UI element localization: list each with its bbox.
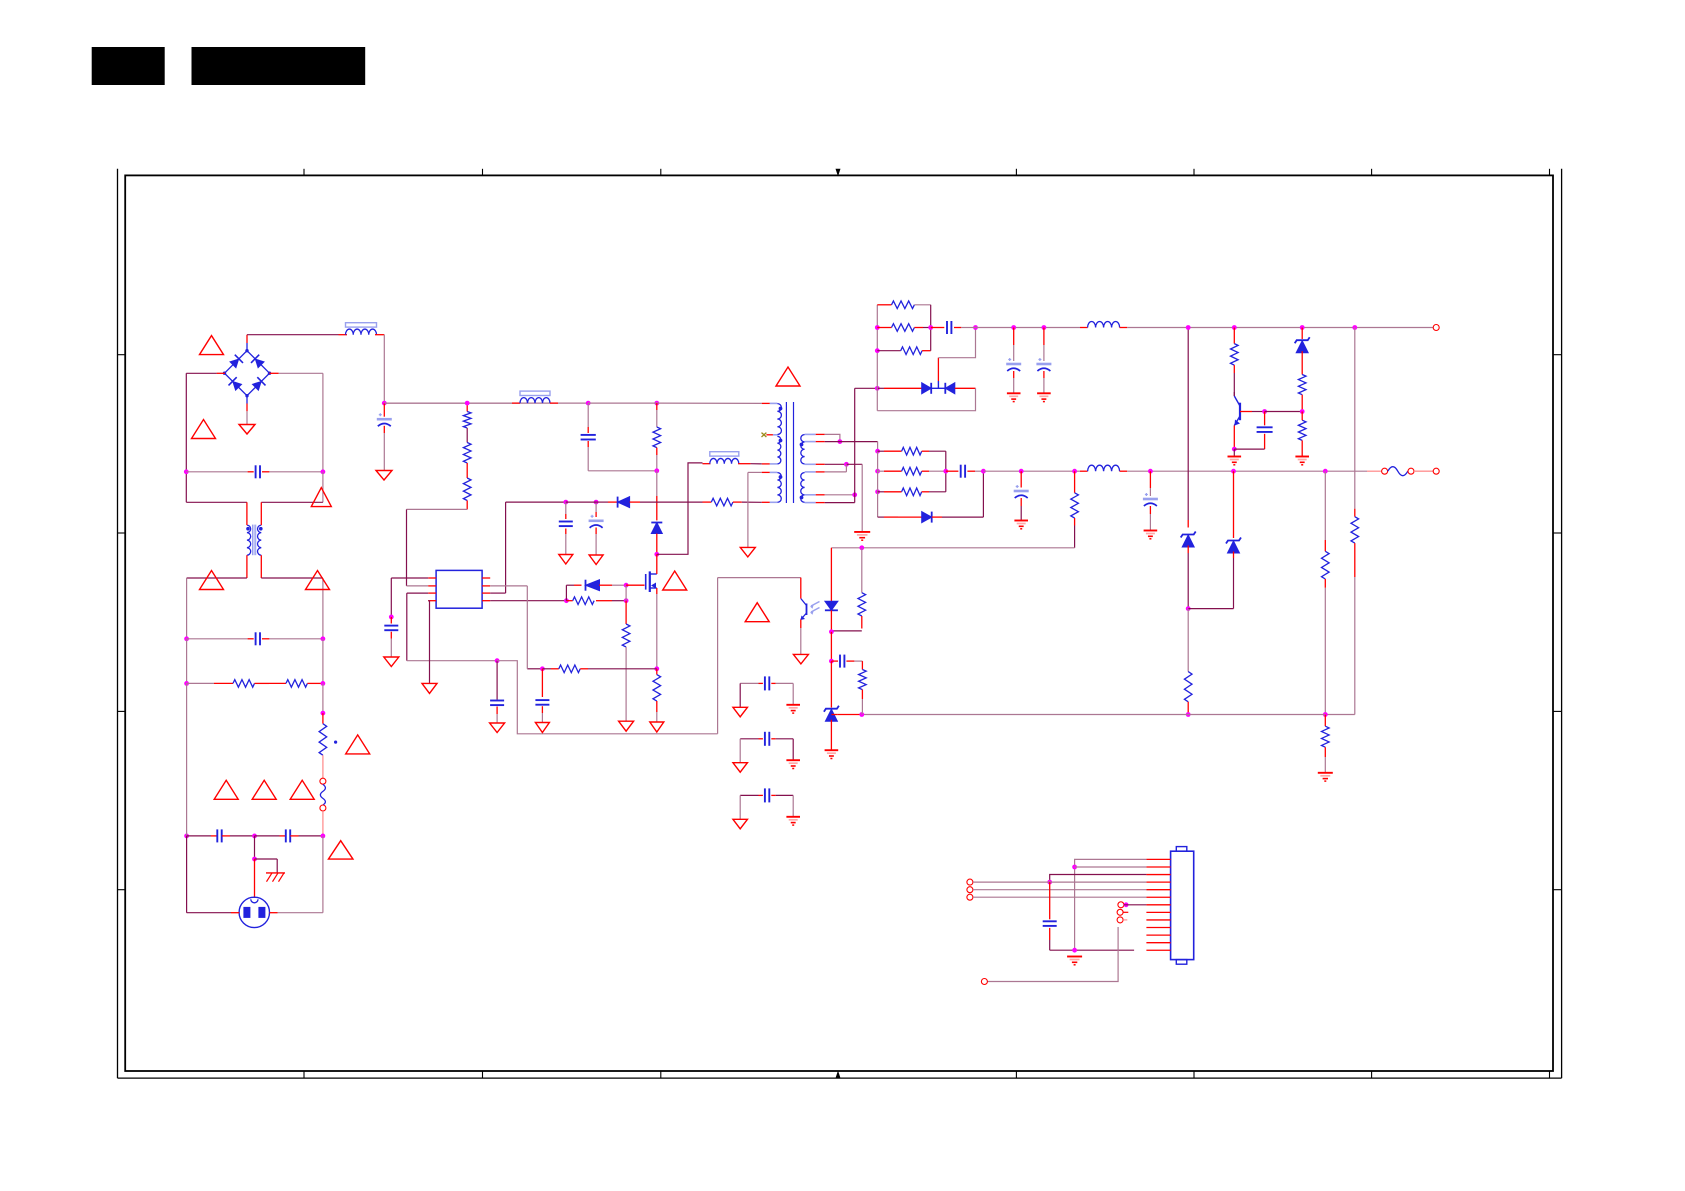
node pin1 cap bbox=[389, 615, 394, 620]
wire 12V cathode up bbox=[938, 328, 975, 389]
resistor R122 bbox=[1184, 609, 1192, 715]
wire CN pin1 bbox=[1075, 859, 1147, 950]
wire IC pin8R to gate net bbox=[490, 600, 566, 602]
pin T102 sec tap2 bbox=[805, 494, 855, 496]
frame zone ticks right bbox=[1553, 355, 1562, 890]
bridge rectifier BD101 bbox=[223, 349, 271, 397]
wire rail 403 left bbox=[384, 402, 588, 404]
node sec centertap bbox=[844, 462, 849, 467]
ground C120 right bbox=[786, 705, 800, 713]
wire Q101 drain bbox=[656, 554, 658, 574]
wire opto rail bbox=[837, 714, 1325, 716]
ground C107 bbox=[384, 657, 399, 667]
MOSFET Q101 bbox=[646, 571, 657, 592]
wire CN pin5 bbox=[973, 889, 1146, 891]
capacitor C112 snubber bbox=[931, 321, 976, 334]
resistor R114 bbox=[1231, 328, 1239, 397]
node divider top bbox=[1072, 469, 1077, 474]
node clamp res top bbox=[654, 401, 659, 406]
common-mode choke T101 bbox=[246, 525, 262, 556]
capacitor C122 stitch bbox=[740, 788, 793, 819]
pin T102 sec4 bbox=[805, 464, 847, 472]
wire left rail mid bbox=[186, 639, 188, 684]
capacitor C121 stitch bbox=[740, 732, 793, 763]
wire Q102 collector bbox=[1233, 392, 1235, 396]
wire bridge bottom pin bbox=[246, 396, 248, 425]
wire zener join bbox=[1188, 558, 1233, 609]
node zener join bbox=[1186, 606, 1191, 611]
wire emitter bbox=[1233, 426, 1235, 450]
node rail403 at C101 bbox=[382, 401, 387, 406]
inductor L105 bbox=[1088, 322, 1120, 328]
wire drain node to bead L104 bbox=[657, 463, 703, 554]
capacitor C101 bulk bbox=[377, 403, 392, 470]
capacitor C103 X-cap bbox=[187, 632, 323, 645]
resistor R123 bbox=[1322, 715, 1330, 773]
resistor R107 gate bbox=[566, 597, 626, 605]
resistor R106 aux bbox=[711, 498, 733, 506]
warning triangle 6 bbox=[346, 735, 370, 754]
ground aux winding bbox=[740, 547, 755, 557]
wire left rail to choke bbox=[186, 501, 247, 503]
pin T102 aux bottom bbox=[762, 501, 778, 503]
pin T102 primary top bbox=[762, 402, 778, 404]
sheet outer border left bbox=[117, 169, 119, 1078]
ground bridge bbox=[239, 425, 255, 435]
node LED bottom bbox=[829, 629, 834, 634]
wire sec tap to snubber2 bbox=[877, 442, 879, 452]
capacitor C119 fb bbox=[831, 655, 862, 670]
node X-cap C102 left bbox=[184, 469, 189, 474]
node railB zener bbox=[1231, 469, 1236, 474]
diode D105 bbox=[931, 383, 975, 394]
resistor R112 bbox=[877, 324, 930, 332]
transistor Q102 bbox=[1234, 396, 1240, 426]
ground C101 bbox=[376, 471, 392, 481]
wire remote line bbox=[988, 927, 1119, 982]
IC U101 PWM controller bbox=[436, 570, 482, 608]
node gate net right bbox=[624, 598, 629, 603]
wire R105 to IC pin2 bbox=[407, 509, 468, 586]
sheet outer border bottom bbox=[118, 1077, 1562, 1079]
capacitor C116 snubber bbox=[946, 465, 984, 478]
redacted title block 2 bbox=[192, 47, 366, 85]
node snubber1 m1 bbox=[875, 325, 880, 330]
wire source row bbox=[527, 668, 542, 670]
node C103 right bbox=[321, 636, 326, 641]
wire rail B right bbox=[1120, 470, 1381, 472]
node sec tap bbox=[838, 439, 843, 444]
IC U101 pins bbox=[428, 578, 490, 601]
diode D107 bbox=[878, 512, 984, 523]
warning triangle 5 bbox=[306, 571, 330, 590]
node C103 left bbox=[184, 636, 189, 641]
wire centertap to gnd stem bbox=[846, 464, 862, 532]
node gate net left bbox=[564, 598, 569, 603]
pin choke top-right bbox=[260, 502, 262, 525]
node on/off bbox=[1124, 902, 1129, 907]
warning triangle 7 bbox=[214, 780, 238, 799]
capacitor C120 stitch bbox=[740, 676, 793, 707]
node railA fb bbox=[1352, 325, 1357, 330]
ground C110 bbox=[589, 555, 603, 565]
capacitor C115 bbox=[1257, 412, 1273, 450]
ground opto emitter bbox=[793, 654, 808, 664]
wire Q101 source bbox=[656, 588, 658, 669]
ground secondary bbox=[854, 532, 870, 540]
connector CN101 body bbox=[1171, 847, 1194, 965]
capacitor C106 snubber bbox=[581, 403, 657, 471]
wire bridge right bbox=[269, 373, 323, 472]
wire clamp to zener bbox=[656, 471, 658, 521]
wire node link bbox=[625, 585, 627, 601]
resistor R111 bbox=[877, 301, 930, 309]
pin T102 sec top bbox=[805, 434, 840, 441]
node Y-row mid bbox=[252, 834, 257, 839]
wire snubber2 left vert bbox=[877, 451, 879, 517]
wire plug right bbox=[270, 836, 323, 913]
thermistor RT101 bbox=[319, 713, 337, 755]
wire choke bl to left rail bbox=[187, 578, 247, 639]
ground connector bbox=[1067, 957, 1082, 965]
node Y-row left bbox=[184, 834, 189, 839]
pin choke top-left bbox=[246, 502, 248, 525]
wire left rail low bbox=[186, 683, 188, 836]
capacitor C111 sense bbox=[535, 669, 549, 723]
wire CN pin3 bbox=[1050, 875, 1147, 883]
ground C117 bbox=[1014, 521, 1028, 529]
ground R123 bbox=[1318, 773, 1333, 781]
ground C122 left bbox=[733, 819, 748, 829]
node C118 top bbox=[1148, 469, 1153, 474]
wire bead L103 span bbox=[384, 402, 512, 404]
warning triangle 1 bbox=[200, 336, 224, 355]
node drain bbox=[654, 552, 659, 557]
pin T102 sec tap bbox=[805, 441, 878, 443]
wire CN pin4 bbox=[973, 881, 1146, 883]
frame center arrow bottom bbox=[836, 1071, 841, 1079]
wire fb vert bbox=[1354, 328, 1356, 517]
wire right rail to choke bbox=[261, 472, 323, 503]
node C114 top bbox=[1042, 325, 1047, 330]
wire sec to 12V rectifier bbox=[854, 388, 856, 495]
sheet inner border bbox=[125, 175, 1553, 1071]
node Y-row right bbox=[321, 834, 326, 839]
capacitor C118 bbox=[1143, 471, 1158, 530]
wire gate to mosfet bbox=[626, 584, 644, 586]
ground C111 bbox=[535, 723, 549, 733]
ground C122 right bbox=[786, 817, 800, 825]
ferrite bead L103 bbox=[512, 391, 558, 403]
wire IC pin7R to VCC rail bbox=[490, 502, 566, 593]
wire rail B bbox=[983, 470, 1087, 472]
wire 12V diode row bbox=[855, 387, 878, 389]
node conn gnd bbox=[1072, 948, 1077, 953]
ferrite bead L104 bbox=[703, 452, 762, 464]
wire D102 to R106 bbox=[630, 501, 712, 503]
wire right rail to thermistor bbox=[322, 683, 324, 713]
terminal in3 bbox=[967, 894, 973, 900]
node divider mid bbox=[859, 545, 864, 550]
zener D108 bbox=[1181, 520, 1196, 609]
wire opto emitter bbox=[800, 620, 802, 655]
ground C108 bbox=[490, 723, 505, 733]
resistor R121 divider bbox=[1071, 471, 1079, 548]
ground C113 bbox=[1007, 393, 1021, 401]
wire R106 to xfmr bbox=[733, 501, 762, 503]
ground C114 bbox=[1037, 393, 1051, 401]
frame zone ticks bottom bbox=[304, 1071, 1550, 1078]
wire fb corner bbox=[1325, 714, 1355, 716]
diode D104 bbox=[877, 383, 931, 394]
node snubber1 left bbox=[875, 386, 880, 391]
wire emitter gnd bbox=[1233, 449, 1235, 456]
resistor R124 opto parallel bbox=[831, 548, 865, 631]
terminal remote bbox=[981, 979, 987, 985]
zener D109 bbox=[1226, 471, 1241, 558]
wire IC pin4 to gnd bbox=[428, 601, 429, 684]
node zener divider bbox=[1300, 409, 1305, 414]
wire gate parallel link bbox=[566, 585, 581, 601]
wire bridge top to bead bbox=[247, 334, 339, 336]
wire choke br to right rail bbox=[261, 578, 323, 639]
AC inlet plug J101 bbox=[239, 897, 269, 927]
frame zone ticks top bbox=[304, 169, 1550, 176]
sheet outer border right bbox=[1561, 169, 1563, 1078]
resistor R115 bbox=[1298, 375, 1306, 412]
pin T102 sec mid bbox=[805, 463, 847, 465]
node opto rail left bbox=[859, 712, 864, 717]
resistor R119 bbox=[878, 467, 946, 475]
ground C121 left bbox=[733, 763, 748, 773]
pin T102 primary mid bbox=[762, 463, 778, 465]
ground C120 left bbox=[733, 707, 748, 717]
wire diode return bbox=[877, 388, 975, 410]
node clamp bottom bbox=[654, 468, 659, 473]
wire base to zener node bbox=[1265, 411, 1303, 413]
wire fuse out bbox=[1414, 470, 1433, 472]
capacitor C123 conn bbox=[1043, 882, 1057, 950]
wire CN pin2 bbox=[1075, 866, 1147, 868]
ground C118 bbox=[1144, 531, 1158, 539]
diode D103 gate bbox=[586, 580, 600, 591]
warning triangle 4 bbox=[200, 571, 224, 590]
wire Q102 base bbox=[1240, 411, 1265, 413]
capacitor C109 bbox=[559, 502, 573, 554]
node C113 top bbox=[1011, 325, 1016, 330]
node clamp cap top bbox=[586, 401, 591, 406]
node snubber2 r1 bbox=[875, 449, 880, 454]
capacitor C117 bbox=[1014, 471, 1029, 520]
spark gap terminals bbox=[320, 755, 326, 836]
optocoupler U102 LED bbox=[825, 560, 838, 632]
resistor R120 bbox=[878, 488, 946, 496]
resistor R116 bbox=[1298, 412, 1306, 457]
ground R116 bbox=[1295, 457, 1309, 465]
node railB tap bbox=[1323, 469, 1328, 474]
warning triangle 13 bbox=[745, 603, 769, 622]
transformer T102 core bbox=[786, 402, 793, 503]
wire railB tap down bbox=[1324, 471, 1326, 551]
frame zone ticks left bbox=[118, 355, 126, 890]
pin T102 sec bottom bbox=[805, 495, 855, 503]
wire pin6R to sense bbox=[490, 586, 527, 669]
wire rail A bbox=[976, 327, 1088, 329]
node C117 top bbox=[1019, 469, 1024, 474]
ground Q102 bbox=[1228, 457, 1242, 465]
node gate bbox=[624, 583, 629, 588]
wire snubber1 left vert bbox=[876, 305, 878, 389]
warning triangle 12 bbox=[776, 367, 800, 386]
node opto rail z bbox=[1186, 712, 1191, 717]
transformer T102 primary winding bbox=[777, 404, 782, 503]
node railA R114 bbox=[1232, 325, 1237, 330]
node C110 top bbox=[594, 500, 599, 505]
terminal on/off bbox=[1118, 902, 1124, 908]
wire emitter-cap link bbox=[1234, 448, 1264, 450]
wire bridge left bbox=[186, 373, 225, 502]
wire conn gnd row bbox=[1050, 949, 1134, 951]
capacitor C108 bbox=[490, 661, 504, 723]
resistor R110 source-gnd bbox=[653, 669, 661, 722]
shunt regulator D110 TL431 bbox=[824, 661, 839, 750]
wire railA long drop bbox=[1187, 328, 1189, 521]
wire bead to bulk cap bbox=[383, 335, 385, 403]
resistor R125 fb bbox=[859, 670, 867, 715]
diode D102 vcc bbox=[618, 497, 630, 508]
node emitter bbox=[1232, 447, 1237, 452]
wire IC pin1 branch bbox=[391, 578, 428, 617]
wire opto collector bbox=[718, 578, 801, 599]
fuse F101 bbox=[1382, 467, 1414, 476]
node railB start bbox=[981, 469, 986, 474]
wire earth pin to plug bbox=[254, 859, 256, 898]
node cap C108 top bbox=[495, 658, 500, 663]
resistor R104/R105 startup bbox=[463, 403, 471, 509]
node sec tap2 bbox=[852, 492, 857, 497]
node R101 left bbox=[184, 681, 189, 686]
wire opto loop bbox=[717, 578, 719, 734]
terminal in2 bbox=[967, 887, 973, 893]
resistor R118 bbox=[878, 447, 946, 455]
node zener top bbox=[829, 659, 834, 664]
capacitor C104 Y-cap bbox=[187, 829, 255, 842]
pin choke bottom-left bbox=[246, 555, 248, 578]
inductor L106 bbox=[1088, 465, 1120, 471]
ground D110 bbox=[825, 750, 839, 758]
wire rail A right bbox=[1120, 327, 1434, 329]
transformer T102 secondary winding bbox=[800, 435, 805, 503]
node C109 top bbox=[563, 500, 568, 505]
wire D101 to drain node bbox=[656, 534, 658, 555]
warning triangle 9 bbox=[290, 780, 314, 799]
resistor R126 bbox=[1322, 551, 1330, 714]
node sense left bbox=[540, 666, 545, 671]
chassis ground bbox=[266, 873, 285, 882]
node CN pin2 bbox=[1072, 865, 1077, 870]
capacitor C113 bbox=[1006, 328, 1021, 394]
ground C121 right bbox=[786, 760, 800, 768]
ground R108 bbox=[619, 721, 634, 731]
node snubber2 r3 bbox=[875, 489, 880, 494]
node snubber2 r2 bbox=[875, 469, 880, 474]
capacitor C107 bbox=[384, 617, 398, 657]
terminal 12V output bbox=[1433, 325, 1439, 331]
resistor R103 snubber bbox=[653, 403, 661, 471]
terminal in1 bbox=[967, 879, 973, 885]
capacitor C102 X-cap bbox=[186, 465, 323, 478]
capacitor C105 Y-cap bbox=[255, 829, 323, 842]
resistor R113 bbox=[877, 347, 930, 355]
warning triangle 11 bbox=[663, 571, 687, 590]
connector CN101 pins bbox=[1146, 859, 1170, 950]
node railA zener bbox=[1300, 325, 1305, 330]
terminal aux1 bbox=[1117, 909, 1128, 915]
pin T102 aux top bbox=[762, 471, 778, 473]
capacitor C114 bbox=[1036, 328, 1051, 394]
wire rail661 corner bbox=[497, 661, 717, 734]
node railA drop bbox=[1186, 325, 1191, 330]
redacted title block 1 bbox=[92, 47, 165, 85]
wire CN pin6 bbox=[973, 896, 1146, 898]
wire snubber1 right vert bbox=[930, 305, 932, 351]
wire bridge top pin bbox=[246, 335, 248, 351]
node snubber1 m2 bbox=[875, 348, 880, 353]
capacitor C110 bbox=[589, 502, 604, 555]
wire CN pin7 bbox=[1124, 904, 1146, 906]
warning triangle 8 bbox=[252, 780, 276, 799]
wire VCC rail bbox=[566, 501, 617, 503]
resistor R117 feedback bbox=[1351, 517, 1359, 715]
warning triangle 2 bbox=[192, 420, 216, 439]
node source bbox=[654, 666, 659, 671]
node base cap bbox=[1262, 409, 1267, 414]
ground IC pin4 bbox=[422, 683, 437, 693]
wire rail403 right bbox=[588, 402, 762, 404]
optocoupler U102 transistor bbox=[801, 599, 820, 621]
resistor R108 gate-gnd bbox=[622, 601, 630, 722]
warning triangle 10 bbox=[328, 841, 353, 859]
node rail403 at R104 bbox=[465, 401, 470, 406]
warning triangle 3 bbox=[311, 488, 331, 507]
wire right rail mid bbox=[322, 639, 324, 684]
node opto rail tap bbox=[1323, 712, 1328, 717]
wire TL431 ref link bbox=[831, 714, 837, 716]
node snubber1 cap bbox=[928, 325, 933, 330]
node CN pin4 junction bbox=[1047, 880, 1052, 885]
wire aux top to ground bbox=[748, 472, 762, 547]
terminal 5V output bbox=[1433, 468, 1439, 474]
resistor R101 bbox=[187, 680, 269, 688]
pin T102 primary NC tap bbox=[762, 433, 778, 437]
wire IC pin3 to rail661 bbox=[407, 593, 497, 661]
node X-cap C102 right bbox=[321, 469, 326, 474]
wire D103 to node bbox=[599, 584, 626, 586]
ground C109 bbox=[559, 555, 573, 565]
resistor R102 bbox=[269, 680, 323, 688]
wire LED to zener node bbox=[830, 632, 832, 661]
wire D107 up bbox=[982, 471, 984, 517]
resistor R109 sense bbox=[542, 665, 656, 673]
ground R110 bbox=[650, 722, 664, 732]
pin choke bottom-right bbox=[260, 555, 262, 578]
wire rail547 bbox=[831, 548, 1074, 560]
wire plug left bbox=[187, 836, 240, 913]
wire Y-mid to earth tap bbox=[252, 836, 277, 873]
diode D101 clamp bbox=[651, 523, 662, 534]
zener D106 bbox=[1295, 328, 1310, 375]
wire snubber2 right vert bbox=[945, 451, 947, 492]
